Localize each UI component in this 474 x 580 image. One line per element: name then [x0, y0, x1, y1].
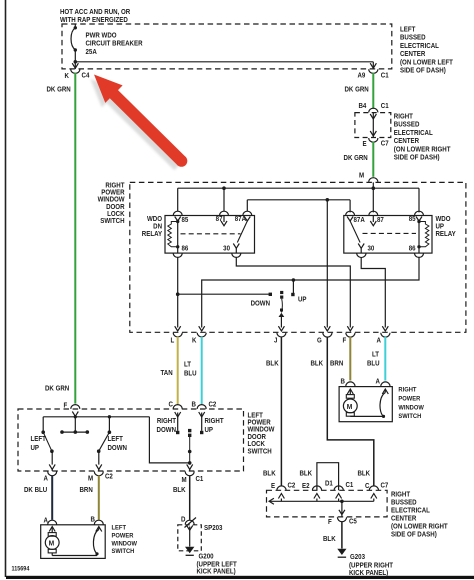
- svg-text:85: 85: [409, 216, 416, 223]
- svg-text:(UPPER RIGHT: (UPPER RIGHT: [349, 562, 393, 569]
- pin J: [277, 326, 286, 337]
- svg-text:A: A: [377, 337, 382, 344]
- left bussed electrical center box: [62, 24, 392, 69]
- svg-text:C2: C2: [288, 482, 296, 489]
- ground G200 symbol: [185, 526, 194, 556]
- svg-text:DK GRN: DK GRN: [47, 86, 71, 93]
- svg-text:HOT ACC AND RUN, OR: HOT ACC AND RUN, OR: [60, 9, 130, 16]
- splice SP203: [185, 518, 197, 528]
- svg-text:C1: C1: [196, 476, 204, 483]
- wire BLK J to E: [280, 337, 282, 486]
- pin 85 (left relay): [173, 211, 182, 221]
- label DK GRN (top left): [47, 86, 71, 93]
- svg-text:RELAY: RELAY: [436, 231, 457, 238]
- svg-text:RIGHT: RIGHT: [398, 386, 416, 393]
- svg-text:SIDE OF DASH): SIDE OF DASH): [391, 531, 437, 538]
- ground G200 box: [178, 525, 202, 551]
- svg-text:M: M: [182, 477, 188, 484]
- label BLK (G wire): [311, 360, 324, 367]
- svg-text:25A: 25A: [86, 49, 98, 56]
- switch common contact bar: [60, 430, 89, 434]
- relay actuate dashed line (left relay): [181, 233, 241, 235]
- pin E2: [312, 486, 321, 499]
- wire DK GRN left main: [74, 73, 76, 404]
- svg-text:(ON LOWER RIGHT: (ON LOWER RIGHT: [391, 523, 448, 530]
- svg-text:DOWN: DOWN: [157, 427, 177, 434]
- svg-text:A: A: [44, 517, 49, 524]
- connector K C4: [71, 63, 80, 73]
- pin A (right pwr wdo switch): [381, 382, 390, 394]
- svg-text:POWER: POWER: [398, 395, 420, 402]
- svg-text:ELECTRICAL: ELECTRICAL: [394, 130, 433, 137]
- pin 87A (right relay): [346, 211, 355, 221]
- svg-text:BLK: BLK: [266, 360, 279, 367]
- red arrow annotation: [91, 75, 188, 171]
- svg-text:KICK PANEL): KICK PANEL): [349, 570, 388, 577]
- coil (right relay): [417, 220, 429, 249]
- diagram number 115694: [12, 566, 31, 572]
- label BLK (left): [173, 487, 186, 494]
- svg-text:SP203: SP203: [204, 525, 223, 532]
- connector E C7: [369, 138, 378, 142]
- connector M: [369, 178, 378, 182]
- label DK GRN (right upper): [345, 86, 369, 93]
- switch LEFT UP lever: [41, 430, 55, 471]
- svg-text:C1: C1: [381, 103, 389, 110]
- svg-text:DOWN: DOWN: [108, 445, 128, 452]
- wire inside right bussed EC upper: [370, 113, 376, 138]
- svg-text:C2: C2: [209, 401, 217, 408]
- pin 30 (right relay): [357, 253, 366, 257]
- label BRN (left): [80, 487, 94, 494]
- wire BLK to G203: [341, 522, 343, 549]
- pin E C2 (right bussed EC): [277, 486, 286, 499]
- label LEFT POWER WINDOW DOOR LOCK SWITCH: [248, 412, 276, 455]
- svg-text:C1: C1: [381, 72, 389, 79]
- pin A: [381, 326, 390, 337]
- svg-text:K: K: [65, 73, 70, 80]
- svg-text:87: 87: [377, 217, 384, 224]
- right bussed electrical center upper box: [355, 113, 391, 138]
- pin A (left pwr wdo switch): [48, 520, 57, 531]
- pin 87 (left relay): [220, 211, 229, 226]
- SEC-BOTLEFT: [12, 337, 276, 576]
- right window lever (in left switch): [187, 429, 193, 471]
- label RIGHT POWER WINDOW SWITCH: [398, 386, 424, 420]
- svg-text:E2: E2: [302, 483, 310, 490]
- pin M C2 (left switch out): [94, 471, 103, 475]
- svg-text:WDO: WDO: [436, 216, 451, 223]
- svg-text:RELAY: RELAY: [142, 231, 163, 238]
- svg-text:SWITCH: SWITCH: [112, 548, 135, 555]
- switch LEFT DOWN lever: [96, 430, 111, 471]
- SEC-BOTRIGHT: [263, 337, 448, 577]
- label RIGHT POWER WINDOW DOOR LOCK SWITCH: [98, 182, 126, 225]
- svg-text:30: 30: [223, 245, 230, 252]
- svg-text:WITH RAP ENERGIZED: WITH RAP ENERGIZED: [60, 17, 128, 24]
- svg-text:POWER: POWER: [112, 532, 134, 539]
- svg-text:ELECTRICAL: ELECTRICAL: [400, 43, 439, 50]
- svg-text:KICK PANEL): KICK PANEL): [197, 568, 236, 575]
- relay WDO DN RELAY box: [165, 216, 255, 254]
- wire left relay 86 / DOWN bus to L: [176, 257, 180, 327]
- svg-text:UP: UP: [31, 445, 40, 452]
- svg-text:CENTER: CENTER: [400, 51, 426, 58]
- svg-text:WDO: WDO: [147, 216, 162, 223]
- svg-text:BLK: BLK: [358, 470, 371, 477]
- svg-text:RIGHT: RIGHT: [157, 418, 176, 425]
- relay WDO UP RELAY box: [344, 216, 432, 254]
- pin 86 (right relay): [415, 247, 424, 258]
- svg-text:87: 87: [216, 216, 223, 223]
- pin A (left switch out): [48, 471, 57, 475]
- pin B (into left switch): [197, 405, 206, 435]
- svg-text:87A: 87A: [235, 216, 247, 223]
- pin D1 C1: [334, 486, 343, 499]
- svg-text:RIGHT: RIGHT: [205, 418, 224, 425]
- label RIGHT BUSSED ELECTRICAL CENTER (lower): [391, 491, 448, 538]
- label WDO UP RELAY: [436, 216, 457, 238]
- svg-text:DK GRN: DK GRN: [344, 155, 368, 162]
- pin 87A (left relay): [243, 211, 252, 221]
- pin K: [197, 326, 206, 337]
- wire bus 87/85 feed: [178, 186, 419, 212]
- svg-text:BUSSED: BUSSED: [400, 34, 426, 41]
- svg-text:BLK: BLK: [311, 360, 324, 367]
- svg-text:BRN: BRN: [80, 487, 94, 494]
- relay contact lever (left relay): [233, 221, 247, 253]
- svg-text:DN: DN: [153, 223, 162, 230]
- node HOT ACC AND RUN label: [60, 9, 130, 24]
- pin M C1 (left switch out): [185, 471, 194, 475]
- svg-text:C: C: [169, 401, 174, 408]
- svg-text:E: E: [271, 483, 276, 490]
- svg-text:A9: A9: [358, 72, 366, 79]
- svg-text:SWITCH: SWITCH: [398, 413, 421, 420]
- svg-text:TAN: TAN: [161, 370, 173, 377]
- svg-text:M: M: [359, 172, 365, 179]
- relay contact lever (right relay): [350, 221, 364, 253]
- wire right relay 86 / UP bus to K: [202, 257, 419, 327]
- label BLK (C wire): [358, 470, 371, 477]
- label PWR WDO CIRCUIT BREAKER 25A: [86, 32, 143, 56]
- wire LT BLU (right): [384, 337, 386, 381]
- svg-text:BLK: BLK: [263, 470, 276, 477]
- label BLK (J wire): [266, 360, 279, 367]
- jumper loop E2 to D1: [317, 463, 339, 491]
- node UP contact: [291, 278, 295, 296]
- svg-text:CENTER: CENTER: [394, 138, 420, 145]
- svg-text:C7: C7: [381, 140, 389, 147]
- svg-text:85: 85: [182, 217, 189, 224]
- svg-text:UP: UP: [205, 427, 214, 434]
- svg-text:UP: UP: [436, 223, 445, 230]
- svg-text:C: C: [365, 483, 370, 490]
- right power window switch box: [339, 387, 392, 422]
- wire bus jog to right rocker common: [149, 417, 189, 463]
- pin 30 (left relay): [232, 253, 241, 257]
- pin L: [173, 326, 182, 337]
- svg-text:CENTER: CENTER: [391, 515, 417, 522]
- wire DK BLU: [51, 476, 53, 520]
- svg-text:K: K: [192, 337, 197, 344]
- node DOWN contact: [178, 293, 272, 296]
- connector A9 C1: [369, 63, 378, 73]
- svg-text:B4: B4: [359, 103, 367, 110]
- svg-text:LT: LT: [184, 361, 191, 368]
- svg-text:RIGHT: RIGHT: [391, 491, 410, 498]
- wire F to switch common bus: [43, 415, 149, 432]
- svg-text:115694: 115694: [12, 566, 31, 572]
- label RIGHT DOWN: [157, 418, 177, 434]
- svg-text:B: B: [90, 516, 95, 523]
- svg-text:C4: C4: [82, 72, 90, 79]
- svg-text:SWITCH: SWITCH: [248, 448, 272, 455]
- pin C (into left switch): [173, 405, 182, 435]
- wire 87A bus to pin G: [326, 200, 328, 328]
- svg-text:86: 86: [182, 245, 189, 252]
- wire TAN L to C: [177, 337, 179, 404]
- label DK GRN (lower left): [45, 385, 69, 392]
- wire M feed into box: [372, 182, 376, 190]
- svg-text:RIGHT: RIGHT: [394, 113, 413, 120]
- svg-text:BLK: BLK: [323, 536, 336, 543]
- wire BLK G to C: [327, 337, 374, 486]
- svg-text:D: D: [181, 516, 186, 523]
- wire BLK to SP203: [189, 476, 191, 520]
- svg-text:C2: C2: [105, 473, 113, 480]
- label RIGHT UP: [205, 418, 224, 434]
- svg-text:DK BLU: DK BLU: [24, 487, 47, 494]
- svg-text:BUSSED: BUSSED: [391, 499, 417, 506]
- motor M (right window): [343, 389, 357, 416]
- pin 85 (right relay): [415, 211, 424, 221]
- svg-text:C5: C5: [349, 518, 357, 525]
- relay actuate dashed line (right relay): [363, 232, 417, 234]
- svg-text:LEFT: LEFT: [31, 436, 46, 443]
- svg-text:B: B: [192, 401, 197, 408]
- label BRN (right): [330, 360, 344, 367]
- pin B (right pwr wdo switch): [346, 382, 355, 394]
- pin F (left switch): [71, 405, 80, 417]
- svg-text:LEFT: LEFT: [400, 26, 415, 33]
- coil (left relay): [168, 220, 180, 249]
- motor M (left window): [45, 527, 59, 556]
- svg-text:PWR WDO: PWR WDO: [86, 32, 117, 39]
- svg-text:G203: G203: [350, 554, 365, 561]
- svg-text:LEFT: LEFT: [108, 436, 123, 443]
- wire bus 87A-87A: [247, 198, 350, 212]
- svg-text:M: M: [88, 475, 94, 482]
- svg-text:DOWN: DOWN: [251, 300, 271, 307]
- svg-text:(ON LOWER RIGHT: (ON LOWER RIGHT: [394, 146, 451, 153]
- svg-text:J: J: [274, 337, 278, 344]
- label LEFT BUSSED ELECTRICAL CENTER: [400, 26, 453, 74]
- SEC-TOP: [47, 9, 453, 404]
- svg-text:LEFT: LEFT: [112, 524, 127, 531]
- label RIGHT BUSSED ELECTRICAL CENTER (upper): [394, 113, 451, 161]
- left switch internal contact arc: [52, 527, 99, 556]
- window switch lever (right): [279, 291, 285, 328]
- svg-text:CIRCUIT BREAKER: CIRCUIT BREAKER: [86, 40, 143, 47]
- label DK BLU: [24, 487, 47, 494]
- left power window switch box: [41, 525, 106, 559]
- pin F C5: [337, 517, 346, 521]
- svg-text:BRN: BRN: [330, 360, 344, 367]
- wire left relay 30 to pin F: [236, 257, 350, 327]
- right bussed electrical center lower box: [267, 490, 388, 517]
- svg-text:30: 30: [368, 245, 375, 252]
- svg-text:C1: C1: [346, 482, 354, 489]
- wire DK GRN right upper: [372, 73, 374, 109]
- wire BRN (left): [98, 476, 100, 520]
- svg-text:C7: C7: [381, 482, 389, 489]
- svg-text:SWITCH: SWITCH: [100, 218, 124, 225]
- right switch internal contact arc: [350, 389, 385, 418]
- pin F: [346, 326, 355, 337]
- label WDO DN RELAY: [142, 216, 163, 238]
- svg-text:87A: 87A: [354, 217, 366, 224]
- pin B (left pwr wdo switch): [94, 520, 103, 531]
- svg-text:BUSSED: BUSSED: [394, 121, 420, 128]
- pin 87 (right relay): [369, 211, 378, 226]
- svg-text:A: A: [44, 475, 49, 482]
- svg-text:L: L: [171, 337, 175, 344]
- left power window door lock switch box: [18, 409, 244, 471]
- svg-text:WINDOW: WINDOW: [112, 540, 138, 547]
- svg-text:F: F: [328, 519, 332, 526]
- svg-text:F: F: [64, 402, 68, 409]
- label DK GRN (to M): [344, 155, 368, 162]
- svg-text:A: A: [376, 378, 381, 385]
- SEC-MID: [98, 182, 466, 344]
- svg-text:F: F: [343, 337, 347, 344]
- right power window door lock switch box: [130, 182, 466, 332]
- svg-text:WINDOW: WINDOW: [398, 404, 424, 411]
- svg-text:M: M: [49, 539, 55, 547]
- connector B4 C1: [369, 108, 378, 112]
- svg-text:BLU: BLU: [184, 370, 197, 377]
- wire bus inside left bussed EC: [74, 60, 374, 69]
- label LT BLU (left): [184, 361, 197, 377]
- pin 86 (left relay): [173, 247, 182, 258]
- wire LT BLU K to B: [201, 337, 203, 404]
- svg-text:DK GRN: DK GRN: [345, 86, 369, 93]
- svg-text:D1: D1: [325, 480, 333, 487]
- svg-text:SIDE OF DASH): SIDE OF DASH): [394, 154, 440, 161]
- svg-text:M: M: [347, 402, 353, 410]
- wire BRN (right): [349, 337, 351, 381]
- pin C C7: [369, 486, 378, 499]
- svg-text:BLK: BLK: [300, 470, 313, 477]
- svg-text:BLU: BLU: [367, 360, 380, 367]
- label LT BLU (right): [367, 351, 380, 367]
- wire right relay 30 to pin A: [361, 257, 385, 327]
- svg-text:G: G: [317, 337, 322, 344]
- svg-text:E: E: [363, 141, 368, 148]
- svg-text:DK GRN: DK GRN: [45, 385, 69, 392]
- label LEFT POWER WINDOW SWITCH: [112, 524, 138, 555]
- pin G: [323, 326, 332, 337]
- svg-text:SIDE OF DASH): SIDE OF DASH): [400, 67, 446, 74]
- bus inside right bussed EC: [269, 498, 374, 517]
- svg-text:G200: G200: [199, 553, 214, 560]
- label BLK (loop): [300, 470, 313, 477]
- svg-text:LT: LT: [372, 351, 379, 358]
- label BLK (E wire): [263, 470, 276, 477]
- ground G203 symbol: [337, 549, 346, 557]
- svg-text:(ON LOWER LEFT: (ON LOWER LEFT: [400, 59, 453, 66]
- svg-text:BLK: BLK: [173, 487, 186, 494]
- svg-text:UP: UP: [298, 296, 307, 303]
- wire DK GRN to M: [372, 142, 374, 177]
- svg-text:ELECTRICAL: ELECTRICAL: [391, 507, 430, 514]
- svg-text:B: B: [340, 378, 345, 385]
- svg-text:86: 86: [409, 245, 416, 252]
- label TAN: [161, 370, 173, 377]
- circuit breaker PWR WDO 25A: [71, 24, 77, 69]
- label BLK (ground wire): [323, 536, 336, 543]
